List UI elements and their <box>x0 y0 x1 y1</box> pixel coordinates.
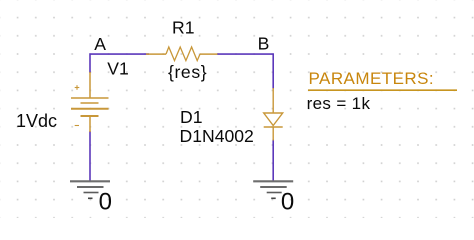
resistor R1 <box>146 47 218 61</box>
voltage source V1 <box>71 72 109 132</box>
diode D1 <box>264 88 283 141</box>
svg-text:res = 1k: res = 1k <box>307 94 371 113</box>
svg-text:R1: R1 <box>172 18 195 38</box>
wire V1 to ground <box>89 131 91 181</box>
wire node B: R1 right to D1 top <box>217 54 273 89</box>
ground left <box>70 181 110 198</box>
wire node A: V1 top to R1 left <box>90 54 149 73</box>
svg-text:D1N4002: D1N4002 <box>180 126 254 146</box>
svg-text:0: 0 <box>281 189 294 216</box>
svg-text:0: 0 <box>99 189 112 216</box>
PARAMETERS underline <box>308 89 457 91</box>
ground right <box>253 181 293 198</box>
svg-text:D1: D1 <box>180 107 203 127</box>
svg-text:B: B <box>258 34 270 54</box>
svg-text:1Vdc: 1Vdc <box>16 111 57 131</box>
svg-text:V1: V1 <box>107 59 129 79</box>
svg-text:A: A <box>94 34 106 54</box>
wire D1 to ground <box>272 140 274 182</box>
svg-text:{res}: {res} <box>168 62 207 82</box>
svg-text:PARAMETERS:: PARAMETERS: <box>309 69 435 88</box>
